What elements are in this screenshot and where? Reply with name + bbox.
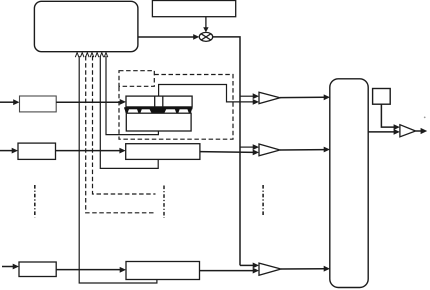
wire distribution line to A2 top input (240, 146, 254, 148)
output wire (416, 130, 422, 132)
arrowhead into multiplier left (193, 34, 199, 40)
ellipsis mark middle column (163, 186, 165, 219)
wire B2 to output amp A4 top input (381, 104, 394, 127)
tap tooth 4 (174, 108, 180, 114)
amp A2 input arrowhead bottom (253, 150, 259, 156)
tap tooth 3 (wide block under cell) (149, 108, 167, 114)
small dashed box (inner, top-left of dashed group) (119, 71, 154, 87)
amp A2 input arrowhead top (253, 144, 259, 150)
tap cell divider right (162, 96, 164, 107)
stray dot artifact (424, 117, 426, 119)
tap cell divider left (154, 96, 156, 107)
wire B1 to multiplier (205, 17, 207, 29)
tap tooth 1 (124, 108, 129, 114)
amp A1 input arrowhead top (253, 93, 259, 99)
arrowhead into multiplier top (203, 27, 208, 32)
combiner U2 (tall rounded rectangle) (330, 79, 368, 288)
delay block R1 (row-1 left rectangle) (20, 96, 57, 112)
arrowhead into R1 (13, 99, 19, 105)
arrowhead into correlator rect1 (120, 99, 126, 105)
arrowhead into R3 (13, 264, 19, 270)
amp A4 input arrowhead bottom (394, 129, 400, 135)
ellipsis mark amp column (262, 185, 264, 217)
wire distribution line to A1 top input (240, 95, 254, 97)
correlator lower rect (126, 113, 191, 131)
wire A1 to combiner (280, 96, 325, 98)
wire distribution line to A3 top input (240, 264, 254, 266)
bus wire 1 (solid, to row-3 block bottom) (79, 56, 157, 283)
wire row-2 block to amp A2 (200, 151, 254, 154)
row-3 correlator block (126, 262, 200, 280)
bus arrowheads into U1 bottom (75, 53, 108, 58)
arrowhead into combiner row1 (324, 94, 330, 100)
reference block B1 (top-right rectangle) (152, 1, 235, 17)
amp A3 input arrowhead bottom (253, 268, 259, 274)
arrowhead into R2 (12, 148, 18, 154)
wire R3 to row-3 block (56, 269, 120, 271)
delay block R3 (row-3 left rectangle) (19, 262, 56, 277)
bus wire 3 (dashed L) (93, 56, 156, 194)
row-3 input wire (2, 266, 14, 268)
arrowhead into combiner row3 (324, 266, 330, 272)
correlator upper rect (tapped delay line) (126, 96, 192, 107)
amp A2 (triangle) (259, 144, 280, 156)
amp A4 input arrowhead top (394, 124, 400, 130)
wire R2 to row-2 block (56, 150, 121, 152)
wire A3 to combiner (281, 268, 325, 270)
control unit U1 (rounded box top-left) (34, 1, 137, 51)
row-1 input wire (0, 101, 14, 103)
amp A1 (triangle) (259, 92, 280, 103)
bus wire 5 (solid, to correlator lower rect bottom) (106, 56, 158, 135)
output arrowhead (421, 128, 428, 134)
arrowhead into combiner row2 (324, 147, 330, 153)
wire tap cell output to amp A1 (159, 85, 254, 102)
ellipsis mark left column (34, 185, 36, 217)
arrowhead into row-2 block (119, 148, 125, 154)
tap tooth 5 (187, 108, 193, 114)
amp A3 (triangle) (259, 263, 281, 275)
amp A4 (output triangle) (400, 125, 416, 137)
wire R1 to correlator (56, 101, 120, 103)
row-2 input wire (0, 150, 13, 152)
wire U1 to multiplier (138, 36, 194, 38)
amp A1 input arrowhead bottom (253, 99, 259, 105)
row-2 correlator block (126, 144, 200, 160)
tap tooth 2 (136, 108, 142, 114)
large dashed box (correlator group) (119, 75, 233, 140)
delay block R2 (row-2 left rectangle) (18, 143, 56, 159)
arrowhead into row-3 block (120, 267, 126, 273)
tap bar (black strip under delay line) (124, 107, 192, 109)
bus wire 4 (solid, to row-2 block bottom) (100, 56, 158, 168)
wire multiplier output to vertical distribution line (213, 37, 240, 266)
wire A2 to combiner (280, 149, 325, 151)
decision block B2 (small square) (373, 89, 391, 105)
bus wire 2 (dashed L) (86, 56, 155, 213)
wire row-3 block to amp A3 (200, 270, 254, 272)
multiplier X1 (circle with X) (199, 32, 212, 41)
amp A3 input arrowhead top (253, 263, 259, 269)
wire combiner to A4 bottom input (368, 131, 394, 133)
